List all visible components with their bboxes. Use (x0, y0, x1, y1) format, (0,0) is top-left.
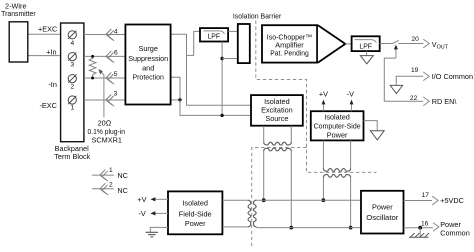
iso-chopper amplifier U2 (262, 25, 345, 62)
wire +In transmitter to terminal 3 (29, 55, 61, 57)
wire pin 16 power common (404, 227, 434, 229)
terminal 4 screw (68, 31, 76, 47)
label -EXC (39, 101, 56, 110)
wire pin 19 I/O common (396, 76, 423, 85)
terminal 1 screw (68, 96, 76, 112)
svg-text:4: 4 (70, 40, 74, 47)
svg-text:Source: Source (265, 114, 288, 123)
module pin 5 chevron (106, 71, 118, 84)
wire LPF2 to switch (380, 43, 393, 45)
pin 19 connector (411, 67, 429, 81)
wire surge mid output (172, 77, 181, 100)
label +V computer side (319, 89, 328, 98)
wire T3 bottom right to bus2 (350, 177, 352, 227)
wire pin 17 +5VDC (404, 200, 432, 202)
svg-text:22: 22 (410, 95, 418, 102)
svg-text:4: 4 (114, 28, 118, 35)
pin 17 connector (422, 192, 439, 205)
label +5VDC (440, 196, 464, 205)
svg-text:2: 2 (109, 182, 113, 189)
svg-text:Computer-Side: Computer-Side (314, 121, 361, 130)
label VOUT (432, 40, 449, 51)
label -In (48, 80, 57, 89)
svg-text:+5VDC: +5VDC (440, 196, 464, 205)
svg-text:Oscillator: Oscillator (366, 213, 399, 222)
svg-text:17: 17 (422, 192, 430, 199)
svg-text:RD EN\: RD EN\ (432, 97, 458, 106)
wire T2 secondary left to bus1 (263, 151, 265, 200)
wire bus2 oscillator drive (256, 227, 361, 229)
surge suppression and protection box U1 (125, 25, 170, 105)
svg-text:5: 5 (114, 71, 118, 78)
svg-text:2: 2 (70, 83, 74, 90)
svg-text:1: 1 (70, 104, 74, 111)
wire LPF1 output to modulator (228, 30, 238, 32)
svg-text:Protection: Protection (132, 73, 164, 82)
junction chassis ground tap (418, 226, 422, 230)
wire surge output to LPF with jog (172, 31, 201, 55)
svg-text:-EXC: -EXC (39, 101, 56, 110)
svg-text:Isolated: Isolated (182, 199, 208, 208)
junction node surge return (178, 98, 181, 101)
wire RD EN control (384, 58, 423, 101)
wire surge bottom output (172, 99, 181, 101)
ground triangle computer side (370, 131, 384, 140)
svg-text:Isolated: Isolated (324, 112, 350, 121)
label 2-Wire Transmitter (1, 2, 36, 18)
svg-text:I/O Common: I/O Common (432, 72, 473, 81)
svg-text:3: 3 (70, 61, 74, 68)
junction T2 left on bus1 (262, 198, 266, 202)
svg-text:Power: Power (372, 203, 393, 212)
pin 20 connector (411, 36, 429, 48)
power oscillator box (361, 191, 404, 234)
module pin 3 chevron (106, 90, 118, 106)
label Isolation Barrier (233, 11, 282, 20)
svg-text:Power: Power (185, 219, 206, 228)
wire pin3 row (84, 99, 125, 101)
junction T3 left on bus1 (322, 198, 326, 202)
svg-text:Power: Power (440, 220, 461, 229)
svg-text:+EXC: +EXC (38, 25, 57, 34)
label Backpanel Term Block (54, 144, 90, 161)
resistor 20 ohm SCMXR1 (89, 56, 96, 78)
svg-text:Term Block: Term Block (54, 152, 90, 161)
wire pin5 row (84, 77, 125, 79)
wire T3 bottom left to bus1 (322, 177, 324, 200)
svg-text:20: 20 (411, 36, 419, 43)
svg-text:+V: +V (319, 89, 328, 98)
module pin 6 chevron (106, 50, 118, 63)
svg-text:Power: Power (327, 130, 348, 139)
earth ground field side (146, 232, 158, 237)
svg-text:Isolation Barrier: Isolation Barrier (233, 11, 282, 20)
module pin 1 NC (92, 167, 128, 181)
wire excitation to transformer T2 primary right (290, 126, 292, 142)
arrow -V into computer-side power (350, 100, 354, 112)
pin 22 connector (410, 95, 429, 106)
leader arrow from SCMXR1 label to resistor (98, 69, 104, 117)
wire field power to T1 bottom (222, 226, 248, 228)
wire computer-side power to ground triangle (364, 121, 378, 131)
terminal 3 screw (68, 53, 76, 69)
wire pin6 row (84, 55, 125, 57)
switch S1 blade (393, 40, 399, 43)
arrow +V out of field-side power (150, 197, 168, 201)
2-wire transmitter box (9, 22, 28, 62)
svg-text:6: 6 (114, 50, 118, 57)
junction resistor top on pin6 wire (91, 55, 94, 58)
svg-text:Field-Side: Field-Side (179, 210, 212, 219)
pin 16 connector (421, 221, 439, 232)
transformer T3 windings (323, 168, 350, 177)
svg-text:NC: NC (117, 186, 128, 195)
svg-text:-V: -V (347, 89, 354, 98)
label 20 ohm 0.1% plug-in SCMXR1 (88, 119, 126, 145)
wire T2 secondary right to bus2 (290, 151, 292, 228)
svg-text:-In: -In (48, 80, 57, 89)
wire LPF1 bottom vertical (221, 42, 223, 116)
label I/O Common (432, 72, 473, 81)
wire excitation to transformer T2 primary left (263, 126, 265, 142)
svg-text:-V: -V (139, 209, 146, 218)
svg-text:3: 3 (114, 90, 118, 97)
junction resistor bottom on pin5 wire (91, 77, 94, 80)
module pin 2 NC (92, 182, 128, 195)
svg-text:+In: +In (46, 47, 56, 56)
svg-text:16: 16 (421, 221, 429, 228)
label +In (46, 47, 56, 56)
label +V field side (137, 195, 146, 204)
label -V computer side (347, 89, 354, 98)
wire pin4 row (84, 34, 125, 36)
module pin 4 chevron (106, 28, 118, 40)
wire branch down to excitation (net A) (187, 55, 252, 105)
wire computer power to T3 top right (350, 140, 352, 168)
arrow +V into computer-side power (322, 100, 326, 112)
isolation barrier dashed line (252, 21, 377, 248)
svg-text:Common: Common (440, 229, 470, 238)
label -V field side (139, 209, 146, 218)
ground triangle below LPF2 (360, 51, 373, 64)
svg-text:NC: NC (117, 171, 128, 180)
svg-text:SCMXR1: SCMXR1 (91, 136, 121, 145)
wire bus1 oscillator drive (256, 199, 361, 201)
label RD EN (432, 97, 458, 106)
chassis ground power common (409, 228, 429, 238)
svg-text:LPF: LPF (359, 43, 372, 50)
isolated field-side power box (168, 191, 222, 234)
svg-text:Transmitter: Transmitter (1, 9, 36, 18)
wire amplifier to LPF2 (345, 43, 351, 45)
junction node net B tap (220, 114, 223, 117)
svg-text:Surge: Surge (138, 44, 157, 53)
low pass filter LPF1 (200, 28, 228, 41)
svg-text:LPF: LPF (207, 33, 220, 40)
isolated computer-side power box (311, 111, 364, 140)
wire net B to excitation source (180, 100, 251, 116)
wire stub to modulator lower pin (222, 58, 238, 60)
junction T2 right on bus2 (289, 226, 293, 230)
wire computer power to T3 top left (322, 140, 324, 168)
junction T3 right on bus2 (349, 226, 353, 230)
backpanel terminal block (61, 23, 84, 142)
label Power Common (440, 220, 470, 238)
modulator coupling block (238, 24, 250, 63)
label +EXC (38, 25, 57, 34)
transformer T1 windings (248, 200, 257, 227)
svg-text:+V: +V (137, 195, 146, 204)
svg-text:19: 19 (411, 67, 419, 74)
wire pin 20 output (398, 43, 423, 45)
isolated excitation source box (251, 95, 303, 126)
arrow -V out of field-side power (150, 211, 168, 215)
terminal 2 screw (68, 75, 76, 91)
svg-text:and: and (142, 63, 154, 72)
wire field power to earth ground (150, 227, 168, 232)
low pass filter LPF2 (352, 36, 380, 51)
transformer T2 windings (264, 142, 292, 151)
ground triangle I/O common (390, 85, 402, 93)
junction node LPF1 bottom (220, 57, 223, 60)
switch actuator arrow from RD EN (394, 45, 398, 59)
wire field power to T1 top (222, 199, 248, 201)
svg-text:Suppression: Suppression (128, 54, 168, 63)
svg-text:Pat. Pending: Pat. Pending (270, 48, 309, 57)
wire +EXC transmitter to terminal 4 (29, 33, 61, 35)
svg-text:1: 1 (109, 167, 113, 174)
